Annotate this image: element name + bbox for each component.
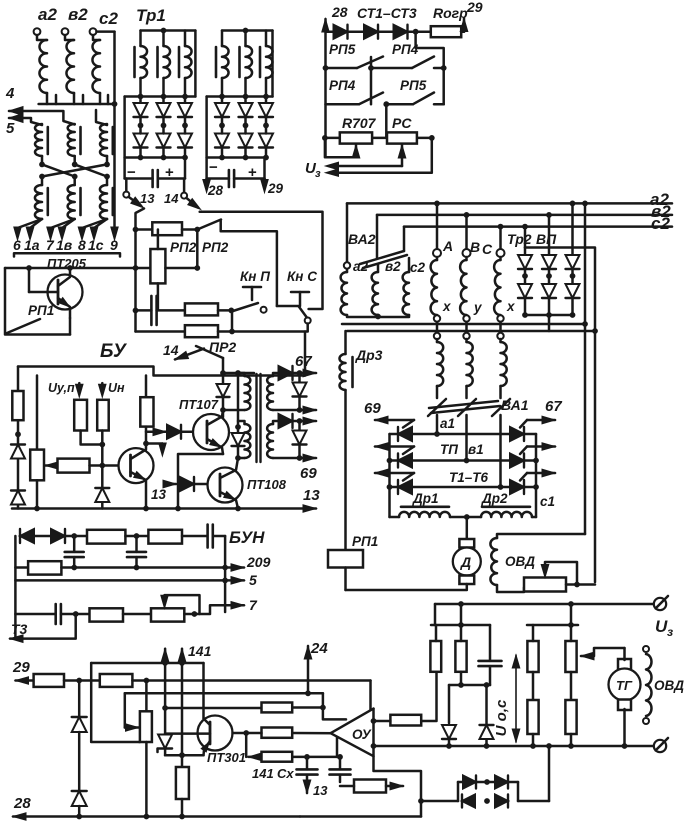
wire RP1 bottom xyxy=(344,568,347,591)
winding Tr1 group2 2 xyxy=(246,46,253,78)
label 14 PR2 xyxy=(163,342,179,358)
wire VA2 pole b2 drop xyxy=(376,215,379,258)
junction Cx cap2 xyxy=(337,754,343,760)
label a2 winding xyxy=(353,259,369,274)
label PR2 xyxy=(209,339,236,355)
label terminal 4 xyxy=(5,85,15,102)
svg-text:ПТ107: ПТ107 xyxy=(179,397,219,412)
base bar oscillator transistor xyxy=(129,455,132,476)
wire contact 13 riser xyxy=(125,179,128,192)
wire VP bottom bus xyxy=(525,314,573,317)
wire rail680 to opamp xyxy=(371,681,374,722)
label 141 arrows xyxy=(188,643,212,659)
contact 13 blade with arrow xyxy=(129,197,144,208)
label Kn C xyxy=(287,269,317,284)
svg-text:БУН: БУН xyxy=(229,528,265,547)
wire box1 to opamp xyxy=(292,706,323,709)
wire rectifier 2 top bus xyxy=(207,95,273,98)
wire pot bottom xyxy=(36,480,39,508)
collector PT107 xyxy=(207,410,223,425)
wire Dr3 top xyxy=(344,331,347,354)
wire VP column riser а2 xyxy=(571,203,574,247)
junction left column xyxy=(15,431,21,437)
wire BUN left rail xyxy=(14,536,17,639)
wire VA2 pole c2 drop xyxy=(403,227,406,251)
winding b2 of Tr2 primary xyxy=(372,264,378,315)
arrow to PT107 input xyxy=(153,428,166,436)
wire third winding to terminal 1с xyxy=(94,219,107,233)
wire C riser xyxy=(499,227,502,249)
junction rect1 mid col 3 xyxy=(182,123,188,129)
wire Un resistor bottom xyxy=(101,431,104,489)
label terminal 1b xyxy=(56,237,73,253)
label terminal 6 xyxy=(13,237,21,253)
svg-text:69: 69 xyxy=(364,400,381,417)
svg-text:Др2: Др2 xyxy=(481,491,508,506)
wire box row xyxy=(325,137,432,140)
junction rect2 top col 2 xyxy=(243,94,249,100)
wire rect1 col 3 mid xyxy=(184,117,187,133)
junction output 69 xyxy=(297,418,303,424)
wire BUN cap1 lower xyxy=(73,557,76,567)
wire Tr2 primary star xyxy=(347,315,409,317)
svg-text:29: 29 xyxy=(267,181,284,196)
junction rect2 mid col 2 xyxy=(243,123,249,129)
wire line F xyxy=(435,603,653,606)
wire frame bottom left xyxy=(390,516,400,519)
choke Dr2 winding xyxy=(481,512,532,517)
motor D xyxy=(453,548,481,576)
core bar third lower xyxy=(112,188,115,215)
gate T2 left xyxy=(403,447,414,455)
core bar Tr1 group2 winding 2 xyxy=(238,47,241,77)
wire Tr1 group1 right drop xyxy=(194,31,197,97)
svg-text:Д: Д xyxy=(460,554,471,570)
emitter PT107 xyxy=(207,439,223,454)
diode rect2 col 1 lower xyxy=(215,133,229,148)
wire thyristor row 2 xyxy=(390,459,537,462)
wire first winding to terminal 1а xyxy=(30,219,42,233)
wire row2 left segment xyxy=(326,103,360,106)
diode output 69 shunt xyxy=(293,421,307,445)
junction PT108 emitter rail xyxy=(235,506,241,512)
core bar Tr1 group2 winding 3 xyxy=(259,47,262,77)
svg-text:РП1: РП1 xyxy=(28,303,54,318)
wire cap row group1 right xyxy=(158,177,185,180)
wire VA2 pole a2 drop xyxy=(346,203,349,262)
junction row2 right xyxy=(533,458,539,464)
wire RP2 coil bottom lead xyxy=(157,283,160,310)
winding C-x of Tr2 xyxy=(494,257,500,315)
breaker VA1 blade b xyxy=(458,399,476,416)
core bar Tr1 group1 winding 1 xyxy=(133,47,136,77)
svg-text:28: 28 xyxy=(207,183,224,198)
svg-text:ПТ108: ПТ108 xyxy=(247,477,287,492)
svg-text:Кн С: Кн С xyxy=(287,269,317,284)
svg-text:13: 13 xyxy=(151,487,167,502)
wire lower box resistor left xyxy=(340,785,354,788)
core bar third upper xyxy=(112,127,115,154)
wire coil1 bottom link xyxy=(223,409,245,412)
junction rect1 bottom col 1 xyxy=(138,155,144,161)
label terminal 8 xyxy=(78,237,86,253)
breaker VA1 blade c xyxy=(492,399,510,416)
wire rect2 col 3 bottom xyxy=(265,148,268,158)
svg-text:ТП: ТП xyxy=(440,442,458,457)
diode rect1 col 2 lower xyxy=(157,133,171,148)
resistor R5 vertical xyxy=(527,700,538,734)
label 209 xyxy=(246,554,271,570)
brush motor D lower xyxy=(459,576,474,585)
wire Uz lower line xyxy=(332,138,432,173)
wire right column mid xyxy=(145,427,148,444)
label 141 Cx xyxy=(252,766,294,781)
junction left rail / cap row xyxy=(133,308,139,314)
label bus c2 xyxy=(651,214,670,233)
wire BUN to arrow 7 xyxy=(194,605,233,614)
wire rect1 right cap riser xyxy=(184,158,187,179)
terminal c2 xyxy=(90,28,97,35)
junction riser left F xyxy=(458,601,464,607)
svg-text:9: 9 xyxy=(110,237,118,253)
wire cap right top xyxy=(489,625,492,661)
junction second lower xyxy=(72,174,78,180)
label 29 bottom xyxy=(12,659,30,676)
wire BUN row4 mid2 xyxy=(123,613,151,616)
wire line B lower xyxy=(237,446,240,458)
wire line A lower xyxy=(222,397,225,417)
svg-text:ПТ301: ПТ301 xyxy=(207,750,246,765)
junction D1 railD xyxy=(446,743,452,749)
junction BUN row2 cap2 xyxy=(134,565,140,571)
label BU block xyxy=(100,341,128,362)
base bar PT205 xyxy=(57,280,60,304)
wire R4 to R6 xyxy=(570,672,573,700)
wire row1 mid segment xyxy=(370,57,373,68)
wire R3 to R5 xyxy=(532,672,535,700)
wire VP mid в2 xyxy=(548,269,551,283)
label plus group2 xyxy=(248,164,257,181)
wire KnP vertical link xyxy=(231,310,234,331)
label 28 top right xyxy=(331,4,348,20)
diode PT108 base xyxy=(180,477,194,491)
wire VP column riser с2 xyxy=(524,227,527,248)
svg-text:Т3: Т3 xyxy=(11,621,28,637)
wire right rail from contact 14 xyxy=(200,212,323,309)
wire c1 to row3 xyxy=(499,415,502,487)
label bus b2 xyxy=(651,202,671,221)
junction rect2 bottom col 2 xyxy=(243,155,249,161)
resistor in lower box xyxy=(354,780,386,793)
wire row1 to right rail xyxy=(434,67,444,70)
terminal OVD top xyxy=(643,646,649,652)
diode rect1 col 3 lower xyxy=(178,133,192,148)
svg-text:13: 13 xyxy=(140,191,155,206)
wire lower resistor row xyxy=(136,330,185,333)
winding secondary a1 xyxy=(437,339,443,386)
label TP xyxy=(440,442,458,457)
wire Tr1 group1 winding 3 bottom lead xyxy=(184,78,187,97)
junction BUN row2 cap1 xyxy=(71,565,77,571)
wire opamp plus input xyxy=(323,693,346,719)
wire BUN top gap xyxy=(34,535,51,538)
label 24 xyxy=(310,640,328,657)
brush TG lower xyxy=(618,700,631,711)
wire R5 bottom xyxy=(532,734,535,746)
wire separator line 1 xyxy=(342,323,585,326)
resistor in RP2 circuit xyxy=(152,222,182,235)
arrow PT108 input xyxy=(163,480,176,488)
wire collector rail to RP2 vertical xyxy=(165,267,197,270)
wire wiper from rail693 xyxy=(124,693,127,727)
svg-text:69: 69 xyxy=(300,465,317,482)
capacitor BUN row4 xyxy=(56,604,61,624)
wire riser left xyxy=(460,604,463,625)
svg-text:РС: РС xyxy=(392,115,412,131)
winding c2 of Tr2 primary xyxy=(403,258,409,315)
junction Tr1 group2 top bus xyxy=(243,28,249,34)
svg-text:24: 24 xyxy=(310,640,328,657)
wire Tr1 group2 winding 2 bottom lead xyxy=(244,78,247,97)
label b2 phase input xyxy=(68,5,88,24)
wire PR2 vertical xyxy=(222,358,225,373)
svg-text:67: 67 xyxy=(295,353,312,370)
emitter oscillator transistor xyxy=(131,472,147,509)
junction diode chain top xyxy=(76,678,82,684)
wire Tr1 group1 winding 2 top lead xyxy=(162,31,165,47)
winding A-x of Tr2 xyxy=(431,257,437,315)
junction after CT3 xyxy=(413,29,419,35)
wire PT205 base rail xyxy=(28,268,31,292)
svg-text:а2: а2 xyxy=(38,5,57,24)
wire secondary2 top xyxy=(273,421,278,424)
brush motor D upper xyxy=(459,539,474,548)
emitter PT205 with arrow xyxy=(58,298,70,318)
transistor oscillator xyxy=(119,448,154,483)
wire output 67 xyxy=(293,372,317,375)
wire winding b2 bottom lead xyxy=(73,93,76,104)
winding second upper of saturable transformer xyxy=(68,124,75,156)
wire BUN row3 xyxy=(15,579,233,582)
arrow control left row 2 xyxy=(375,443,414,450)
wire cross connection 2 xyxy=(75,164,107,176)
wire opamp lower frame xyxy=(374,756,422,816)
junction row2 mid xyxy=(383,101,389,107)
arrow control right row 2 xyxy=(527,443,555,450)
wire bottom wire PT301 xyxy=(165,754,203,757)
wire diode chain lower xyxy=(78,806,81,817)
wire bus c2 xyxy=(404,225,672,228)
terminal A xyxy=(433,249,441,257)
winding c2 of input transformer xyxy=(92,35,100,93)
wire left column mid xyxy=(17,420,20,444)
label terminal 7 xyxy=(46,237,55,253)
resistor Cx row xyxy=(262,752,293,762)
arrow 7 xyxy=(231,602,244,610)
op-amp OU xyxy=(331,709,374,757)
junction PT107 emitter rail xyxy=(175,506,181,512)
wire rect2 col 3 mid xyxy=(265,117,268,133)
terminal x1 xyxy=(434,315,440,321)
wire VP minus drop xyxy=(548,315,551,331)
label c1 thyristor xyxy=(540,494,555,509)
arrow terminal 28 top xyxy=(322,19,329,32)
label Uz top right xyxy=(305,160,321,180)
wire terminal 5 to winding xyxy=(22,118,42,125)
wire Tr1 group1 winding 3 top lead xyxy=(184,31,187,47)
junction mid row xyxy=(99,463,105,469)
label VP xyxy=(536,231,557,247)
wire cap row mid xyxy=(157,309,185,312)
junction railB R4 xyxy=(568,622,574,628)
label RP2 coil xyxy=(170,240,197,255)
junction rect1 top col 1 xyxy=(138,94,144,100)
junction VP on sep2 xyxy=(592,328,598,334)
wire row2 right segment xyxy=(386,103,413,106)
wire collector tap down xyxy=(245,733,248,757)
label A xyxy=(442,238,453,254)
wire secondary2 bottom xyxy=(273,457,300,460)
label terminal 9 xyxy=(110,237,118,253)
wire R2 top xyxy=(460,625,463,641)
label 13 Tr1 xyxy=(140,191,155,206)
junction rect1 mid col 2 xyxy=(161,123,167,129)
resistor feedback 1 xyxy=(262,703,293,713)
junction row3 left xyxy=(387,484,393,490)
label 5 xyxy=(249,572,257,588)
measure arrow Uoc xyxy=(512,655,520,742)
wire bridge right lead xyxy=(518,800,549,803)
terminal circle bottom xyxy=(654,738,668,752)
potentiometer BUN xyxy=(151,608,184,621)
wire left column bottom xyxy=(17,506,20,509)
diode VP в2 upper xyxy=(542,248,556,270)
arrow 29 bottom xyxy=(16,677,34,684)
junction line B rail xyxy=(235,370,241,376)
svg-text:Кн П: Кн П xyxy=(240,269,270,284)
junction line B bottom xyxy=(235,455,241,461)
wire BUN top to right rail xyxy=(213,535,225,538)
arrow 28 bottom xyxy=(13,813,300,820)
wire feedback right xyxy=(421,672,436,721)
diode bridge top 2 xyxy=(495,776,508,789)
label minus group2 xyxy=(209,159,218,176)
arrow 209 xyxy=(231,564,244,571)
terminal circle top xyxy=(654,596,668,610)
junction BUN pot arm xyxy=(192,611,198,617)
diode chain D1 xyxy=(72,717,87,732)
junction bridge left xyxy=(418,798,424,804)
junction Tr2 star xyxy=(375,314,381,320)
label CT1-CT3 xyxy=(357,5,417,21)
wire oscillator rail to transformer xyxy=(223,372,254,375)
wire second column mid lower xyxy=(73,177,76,186)
label T3 xyxy=(11,621,28,637)
wire first column mid lower xyxy=(41,177,44,186)
wire shunt to bottom xyxy=(298,397,301,411)
wire VP mid с2 xyxy=(524,269,527,283)
arrow output 69 return xyxy=(300,454,317,462)
diode up 2 xyxy=(480,725,494,739)
wire R3 top xyxy=(532,625,535,641)
junction rect1 top col 2 xyxy=(161,94,167,100)
junction diode chain bottom xyxy=(76,814,82,820)
junction bridge riser railD xyxy=(546,743,552,749)
junction opamp plus riser xyxy=(320,705,326,711)
junction rect1 bottom col 2 xyxy=(161,155,167,161)
wire Tr1 group1 winding 1 top lead xyxy=(139,31,142,47)
core bar second upper xyxy=(79,127,82,154)
wire left rail from contact 13 xyxy=(136,209,145,332)
svg-text:29: 29 xyxy=(12,659,30,676)
wire right column xyxy=(145,376,148,398)
label b1 xyxy=(468,442,484,457)
collector oscillator transistor xyxy=(131,444,147,460)
junction R5 railD xyxy=(530,743,536,749)
svg-text:ОВД: ОВД xyxy=(654,678,684,693)
wire diode chain mid xyxy=(78,732,81,791)
junction row3 right xyxy=(533,484,539,490)
label BUN xyxy=(229,528,265,547)
label RS xyxy=(392,115,412,131)
arrow terminal 29 top xyxy=(460,19,468,32)
diode rect2 col 2 lower xyxy=(239,133,253,148)
arrow output 67 return xyxy=(300,406,317,414)
svg-text:Uу,п: Uу,п xyxy=(48,381,75,395)
junction VP riser а2 xyxy=(570,201,576,207)
label 28 bottom xyxy=(13,795,31,812)
junction VP mid в2 xyxy=(546,273,552,279)
rheostat OVD xyxy=(524,578,566,592)
label RP1 relay xyxy=(352,534,378,549)
wire rect2 col 2 mid xyxy=(244,117,247,133)
junction BUN row3 right rail xyxy=(222,578,228,584)
wire shunt2 to bottom xyxy=(298,445,301,459)
winding B-y of Tr2 xyxy=(460,257,466,315)
transistor PT108 xyxy=(208,468,243,503)
svg-text:13: 13 xyxy=(313,783,328,798)
label 28 tr1 xyxy=(207,183,224,198)
junction KnP pivot xyxy=(228,308,234,314)
wire lower row right xyxy=(218,330,305,333)
junction rect2 bottom col 3 xyxy=(263,155,269,161)
wire VP mid а2 xyxy=(571,269,574,283)
label R707 xyxy=(342,115,377,131)
wire PT108 base lead xyxy=(194,483,216,486)
core bar first upper xyxy=(46,127,49,154)
svg-text:+: + xyxy=(165,164,174,181)
wire R707 wiper xyxy=(325,138,356,157)
label 7 xyxy=(249,597,258,613)
resistor Un xyxy=(97,400,109,431)
arrow Un xyxy=(99,383,107,397)
diode left lower xyxy=(11,491,25,505)
svg-text:а1: а1 xyxy=(440,416,455,431)
resistor R6 vertical xyxy=(565,700,576,734)
resistor lower row xyxy=(185,325,218,337)
wire PT301 to input resistor xyxy=(233,732,262,735)
svg-text:1в: 1в xyxy=(56,237,73,253)
wire Tr1 group2 winding 3 bottom lead xyxy=(265,78,268,97)
capacitor Cx 2 xyxy=(330,757,351,775)
winding a2 of Tr2 primary xyxy=(341,269,347,315)
potentiometer bias xyxy=(30,450,44,481)
svg-text:ВП: ВП xyxy=(536,231,557,247)
wire choke to motor xyxy=(466,517,469,539)
label x right xyxy=(506,299,515,314)
junction input transformer bottom xyxy=(112,101,118,107)
wire cap row right xyxy=(218,309,231,312)
